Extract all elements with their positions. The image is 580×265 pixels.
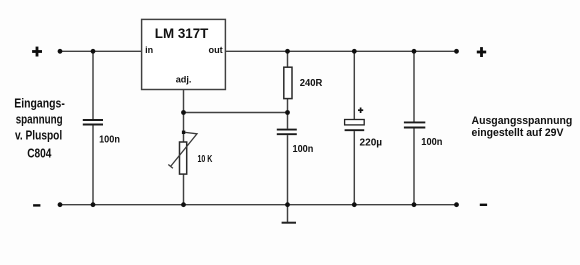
svg-text:100n: 100n xyxy=(293,144,314,155)
svg-text:10 K: 10 K xyxy=(198,154,213,165)
svg-text:LM 317T: LM 317T xyxy=(155,26,209,42)
svg-text:240R: 240R xyxy=(300,78,323,89)
svg-text:out: out xyxy=(209,44,223,55)
svg-text:adj.: adj. xyxy=(176,73,192,84)
svg-text:in: in xyxy=(145,44,153,55)
svg-text:eingestellt auf 29V: eingestellt auf 29V xyxy=(472,127,565,139)
svg-text:100n: 100n xyxy=(421,137,442,148)
svg-text:v. Pluspol: v. Pluspol xyxy=(15,128,62,142)
svg-text:Eingangs-: Eingangs- xyxy=(14,96,65,110)
svg-text:Ausgangsspannung: Ausgangsspannung xyxy=(472,115,573,127)
svg-text:C804: C804 xyxy=(27,145,52,160)
svg-text:spannung: spannung xyxy=(16,113,63,127)
svg-text:220µ: 220µ xyxy=(360,137,383,148)
svg-text:100n: 100n xyxy=(99,134,120,145)
